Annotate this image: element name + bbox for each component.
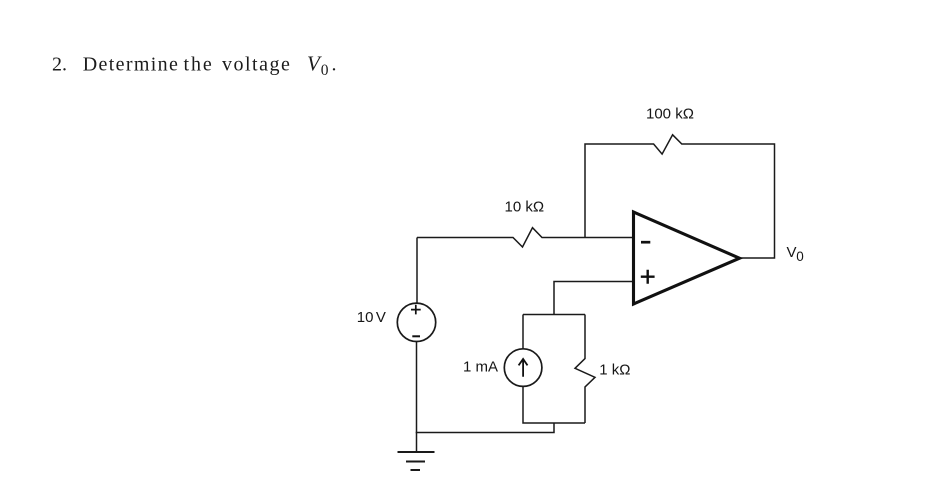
svg-text:2.: 2.: [52, 54, 67, 76]
svg-text:V: V: [307, 52, 322, 76]
svg-text:Determine: Determine: [83, 54, 180, 76]
svg-text:.: .: [332, 54, 337, 76]
svg-text:V: V: [787, 244, 797, 261]
svg-text:1 kΩ: 1 kΩ: [599, 361, 630, 378]
svg-text:the: the: [184, 54, 214, 76]
svg-text:100 kΩ: 100 kΩ: [646, 106, 694, 123]
svg-text:0: 0: [796, 249, 804, 264]
svg-text:10 kΩ: 10 kΩ: [505, 199, 545, 216]
svg-text:10: 10: [357, 309, 374, 326]
svg-text:0: 0: [321, 62, 329, 79]
svg-text:V: V: [376, 309, 386, 326]
svg-text:1 mA: 1 mA: [463, 358, 498, 375]
svg-text:voltage: voltage: [222, 54, 291, 76]
